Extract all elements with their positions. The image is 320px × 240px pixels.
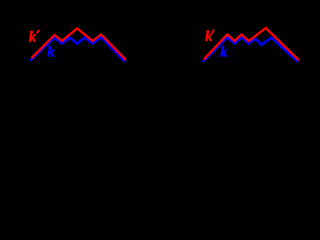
svg-text:k: k [220, 44, 228, 60]
right diagram: prime mark of k' [212, 30, 214, 34]
svg-text:k: k [205, 29, 213, 45]
left diagram: prime mark of k' [37, 30, 39, 34]
svg-text:k: k [47, 44, 55, 60]
svg-text:k: k [29, 29, 37, 45]
left diagram: blue path (lower lattice path) [30, 37, 125, 62]
right diagram: red path (upper lattice path with tall right peak) [204, 28, 299, 60]
right diagram: blue path (lower lattice path) [203, 37, 298, 62]
left diagram: red path (upper lattice path with tall central peak) [31, 28, 126, 59]
